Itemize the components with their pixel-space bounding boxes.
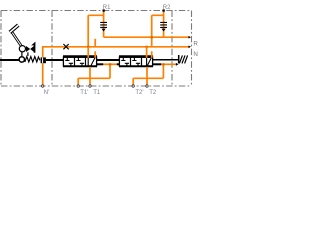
wire link drop to T1'	[78, 64, 110, 86]
node T2	[146, 85, 148, 87]
wire V1 top port b into valve	[94, 51, 96, 58]
wire R horizontal	[104, 36, 190, 38]
wire V2 top port a into valve	[146, 47, 148, 58]
junction V2 port a N line	[146, 46, 148, 48]
wire R2 bypass	[152, 15, 164, 37]
svg-text:R1: R1	[103, 5, 111, 11]
junction R2 bypass R line	[151, 36, 153, 38]
section divider 2	[171, 11, 173, 87]
valve V2 cell walls	[131, 57, 142, 66]
wire R2 vertical	[163, 11, 165, 38]
valve V2 cell1 blocked ports	[121, 58, 129, 66]
throttle R1 arrow	[102, 29, 106, 32]
throttle R2 arrow	[162, 29, 166, 32]
X mark on N wire	[63, 44, 68, 49]
wire R1 bypass	[88, 15, 103, 47]
enclosure border bottom	[1, 85, 192, 87]
stub V2 right port	[153, 63, 161, 65]
wire valve V2 right port	[161, 63, 177, 65]
fulcrum flag	[31, 42, 35, 46]
wire V1 top port a into valve	[87, 47, 89, 58]
svg-text:T1: T1	[93, 90, 101, 96]
valve V1 cell walls	[75, 57, 86, 66]
valve V2 cell2 blocked ports	[132, 58, 140, 66]
mechanical rod block to V1	[46, 59, 63, 61]
svg-text:T1': T1'	[80, 90, 88, 96]
stub pivot to roller	[21, 52, 23, 56]
piston block	[41, 57, 46, 63]
wire V2 bottom port to T2	[146, 67, 148, 86]
anchor wall	[178, 55, 180, 63]
enclosure border left	[0, 11, 2, 87]
stub bowtie down	[27, 52, 29, 56]
valve V1 cell3 flow paths	[88, 58, 95, 66]
mechanical rod left	[0, 59, 19, 61]
port arrow R	[189, 36, 192, 39]
wire valve V2 top port b upper	[151, 37, 153, 46]
fulcrum bar	[34, 45, 36, 53]
valve V2 body	[119, 57, 152, 66]
svg-text:T2': T2'	[135, 90, 143, 96]
junction link drop	[109, 63, 111, 65]
stub V2 left port	[117, 63, 120, 65]
valve V1 cell2 blocked ports	[76, 58, 84, 66]
wire R1 vertical	[103, 11, 105, 38]
fulcrum bowtie right	[30, 46, 34, 52]
svg-text:R: R	[193, 41, 198, 48]
lever pivot circle	[19, 46, 25, 52]
svg-text:N': N'	[44, 90, 49, 96]
lever shaft	[12, 32, 22, 46]
port arrow tank	[176, 63, 179, 66]
section divider 1	[51, 11, 53, 87]
svg-text:N: N	[193, 51, 197, 58]
wire N horizontal	[43, 46, 190, 48]
throttle R1 bars	[100, 22, 107, 27]
return spring	[25, 57, 40, 63]
throttle R2 bars	[160, 22, 167, 27]
junction V2 right drop	[162, 63, 164, 65]
node T1	[89, 85, 91, 87]
valve V2 cell3 flow paths	[147, 58, 152, 66]
node T1'	[77, 85, 79, 87]
svg-text:R2: R2	[163, 5, 171, 11]
enclosure border right	[191, 11, 193, 87]
wire V2 top port b into valve	[151, 51, 153, 58]
valve V1 top rail	[63, 55, 97, 57]
wire drop to T2'	[133, 64, 163, 86]
junction top R1	[103, 9, 105, 11]
valve V2 top rail	[119, 55, 153, 57]
anchor hatching	[179, 55, 187, 63]
node T2'	[132, 85, 134, 87]
valve V1 body	[63, 57, 96, 66]
wire V1 bottom port to T1	[89, 67, 91, 86]
valve V1 cell1 blocked ports	[65, 58, 73, 66]
fulcrum bowtie left	[26, 46, 30, 52]
wire node N drop	[42, 46, 44, 86]
node N'	[42, 85, 44, 87]
svg-text:T2: T2	[149, 90, 157, 96]
wire link V1-V2	[103, 63, 117, 65]
junction top R2	[163, 9, 165, 11]
enclosure border top	[1, 10, 192, 12]
lever head	[10, 25, 18, 32]
wire valve V1 top port b upper	[94, 39, 96, 46]
port arrow N	[189, 46, 192, 49]
roller disc	[19, 57, 24, 62]
stub V1 right port	[97, 63, 103, 65]
mechanical rod V2 to anchor	[153, 59, 179, 61]
mechanical rod V1 to V2	[97, 59, 119, 61]
junction R1 bypass N line	[87, 46, 89, 48]
